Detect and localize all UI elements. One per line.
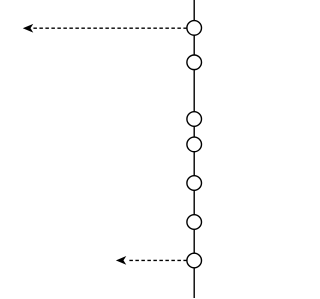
wire segment 6-7 bbox=[193, 229, 195, 253]
wire segment 2-3 bbox=[193, 70, 195, 112]
dashed arrow from node 7 bbox=[117, 257, 187, 264]
wire segment bottom bbox=[193, 268, 195, 298]
wire segment top bbox=[193, 0, 195, 21]
node 5 bbox=[187, 176, 202, 191]
wire segment 4-5 bbox=[193, 152, 195, 176]
node 2 bbox=[187, 55, 202, 70]
wire segment 3-4 bbox=[193, 126, 195, 137]
node 7 bbox=[187, 253, 202, 268]
wire segment 1-2 bbox=[193, 35, 195, 55]
node 6 bbox=[187, 215, 202, 230]
node 4 bbox=[187, 137, 202, 152]
wire segment 5-6 bbox=[193, 190, 195, 214]
node 1 bbox=[187, 21, 202, 36]
dashed arrow from node 1 bbox=[24, 25, 187, 32]
node 3 bbox=[187, 112, 202, 127]
